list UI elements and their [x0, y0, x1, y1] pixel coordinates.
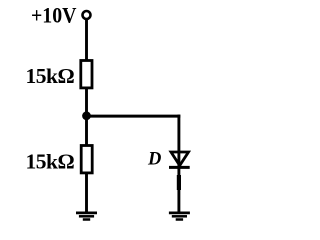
terminal circle (+10V input): [83, 11, 91, 19]
value label 15kΩ (R1): [26, 64, 75, 88]
diode D cathode bar: [169, 166, 190, 169]
node +10V supply label: [31, 2, 77, 27]
svg-text:+10V: +10V: [31, 2, 77, 27]
wire node A to diode branch (horizontal): [87, 115, 181, 118]
diode D triangle (anode): [171, 152, 189, 166]
wire from diode to ground (thick lead segment): [177, 175, 181, 190]
wire from R1 to node A: [85, 88, 88, 117]
wire corner down to diode D: [177, 115, 180, 153]
label D (diode): [147, 149, 161, 169]
svg-text:15kΩ: 15kΩ: [26, 150, 75, 174]
resistor R2 15kΩ: [81, 146, 92, 173]
wire from terminal to R1: [85, 19, 88, 60]
resistor R1 15kΩ: [81, 61, 92, 88]
ground (right): [169, 213, 190, 220]
value label 15kΩ (R2): [26, 150, 75, 174]
wire node A to R2: [85, 115, 88, 146]
wire from R2 to ground: [85, 173, 88, 212]
svg-text:D: D: [147, 149, 161, 169]
node A junction dot: [82, 111, 91, 120]
wire from diode lead to right ground: [177, 167, 180, 212]
svg-text:15kΩ: 15kΩ: [26, 64, 75, 88]
wire through diode: [177, 152, 180, 168]
ground (left): [76, 213, 97, 220]
